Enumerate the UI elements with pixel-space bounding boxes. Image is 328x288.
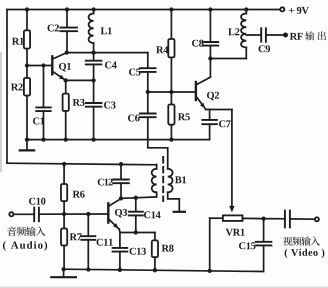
label Q1 (59, 63, 71, 72)
label audio input (7, 226, 45, 236)
node C14 tap (134, 196, 138, 200)
capacitor C4 (86, 53, 102, 81)
label R5 (178, 113, 190, 120)
node rail-L2 (244, 7, 248, 11)
node C11-ground (86, 267, 90, 271)
node R6-R7-audio (62, 212, 66, 216)
terminal video input (315, 217, 319, 221)
label (Video) (285, 249, 325, 258)
scan shading left edge (0, 52, 2, 172)
label video input (283, 236, 320, 245)
node Q1 emitter (64, 78, 68, 82)
label Q3 (115, 209, 127, 218)
node C1-ground (41, 137, 45, 141)
node C8-L2-collector (208, 56, 212, 60)
terminal audio input (9, 212, 13, 216)
wire Q1 collector line (67, 52, 148, 54)
wire collector to B1 (121, 197, 157, 199)
label (Audio) (3, 241, 47, 251)
capacitor C10 (14, 208, 108, 222)
capacitor C13 (113, 233, 128, 270)
node R5-ground (169, 137, 173, 141)
capacitor video coupling (264, 211, 315, 228)
capacitor C5 (140, 53, 156, 92)
node C5-C6-base (146, 90, 150, 94)
node C13-ground (118, 268, 122, 272)
resistor R8 (152, 233, 158, 271)
label C5 (129, 69, 141, 76)
capacitor C2 (60, 10, 77, 53)
label C12 (98, 179, 113, 186)
node L1-C4 (91, 50, 95, 54)
capacitor C14 (129, 198, 143, 233)
resistor R5 (168, 92, 174, 140)
label R6 (73, 191, 85, 198)
label C11 (97, 239, 113, 246)
node R2-ground (25, 137, 29, 141)
label R4 (156, 46, 168, 53)
label C6 (128, 115, 140, 122)
capacitor C7 (202, 110, 217, 140)
ground audio (51, 269, 76, 277)
terminal +9V (280, 7, 284, 11)
wire L2 tap to C9 (246, 34, 261, 36)
node Q1 collector (65, 50, 69, 54)
inductor L2 (241, 10, 246, 59)
scan shading bottom edge (0, 287, 328, 288)
node C3-ground (91, 137, 95, 141)
capacitor C9 (261, 28, 283, 41)
label C4 (105, 62, 117, 69)
label C9 (259, 45, 271, 52)
node rail-R4 (169, 7, 173, 11)
label C10 (29, 198, 45, 205)
node C1 tap (41, 63, 45, 67)
node VR1-C15 (261, 216, 265, 220)
ground upper-left (20, 140, 34, 151)
wire upper ground bus (27, 139, 210, 141)
node R8-ground (153, 268, 157, 272)
capacitor C3 (86, 80, 102, 139)
wire wiper drop (231, 110, 233, 207)
node rail-L1 (91, 7, 95, 11)
node C11 tap (86, 212, 90, 216)
label B1 (175, 176, 186, 183)
node C4-C3-emitter (91, 78, 95, 82)
label C13 (130, 248, 146, 255)
capacitor C1 (36, 66, 50, 140)
label R1 (12, 38, 24, 45)
ground B1 (174, 199, 185, 212)
transformer B1 core (162, 157, 164, 201)
node rail-C2 (65, 7, 69, 11)
resistor R6 (61, 164, 67, 214)
resistor R7 (61, 214, 67, 269)
capacitor C15 (256, 219, 272, 272)
label L2 (228, 28, 239, 35)
label RF output (290, 31, 326, 40)
label R2 (11, 84, 23, 91)
transformer B1 secondary (168, 169, 180, 199)
arrow VR1 wiper (229, 206, 234, 213)
resistor R2 (24, 66, 30, 140)
node R1-R2-base junction (25, 63, 29, 67)
node R3-ground (64, 137, 68, 141)
label C1 (33, 118, 44, 125)
wire audio-stage top line (7, 163, 157, 165)
transformer B1 primary (152, 164, 157, 197)
capacitor C11 (81, 214, 95, 270)
capacitor C8 (203, 10, 219, 59)
label VR1 (226, 229, 245, 236)
inductor L1 (89, 10, 94, 53)
label C7 (219, 120, 231, 127)
node C14-emitter line (134, 230, 138, 234)
node top line-R6 (62, 162, 66, 166)
transistor Q2 (196, 59, 211, 110)
wire Q1 emitter line (66, 79, 94, 81)
label Q2 (207, 92, 219, 101)
potentiometer VR1 (210, 215, 264, 221)
wire Q2 base (148, 91, 195, 93)
node rail-C8 (208, 7, 212, 11)
label R3 (73, 99, 85, 106)
resistor R3 (63, 80, 69, 139)
label C8 (192, 40, 204, 47)
label C2 (48, 25, 59, 32)
label R7 (70, 233, 82, 240)
node R7-ground (61, 267, 65, 271)
label C14 (144, 211, 161, 218)
resistor R4 (168, 10, 174, 93)
capacitor C6 (140, 92, 156, 140)
node R4-R5-base (169, 90, 173, 94)
wire +9V top supply rail (7, 9, 280, 11)
node Q3 collector (119, 196, 123, 200)
label R8 (162, 245, 174, 252)
label L1 (101, 27, 112, 34)
wire left frame feedback line (6, 10, 8, 164)
wire VR1 left leg (209, 218, 211, 271)
wire tank bottom (210, 58, 246, 60)
wire Q1 base (27, 65, 51, 67)
node rail-R1 (25, 7, 29, 11)
transistor Q1 (52, 53, 67, 81)
node C12 tap (119, 162, 123, 166)
label +9V (289, 7, 309, 14)
wire C6 to transformer (148, 140, 168, 169)
node VR1-ground (208, 269, 212, 273)
terminal RF output (284, 33, 288, 37)
wire Q2 emitter line (206, 109, 232, 111)
capacitor C12 (113, 164, 129, 198)
wire Q3 emitter line (119, 229, 155, 232)
resistor R1 (24, 10, 30, 66)
transistor Q3 (108, 199, 121, 230)
label C3 (104, 102, 116, 109)
wire bottom ground bus (64, 269, 264, 271)
label C15 (239, 242, 255, 249)
